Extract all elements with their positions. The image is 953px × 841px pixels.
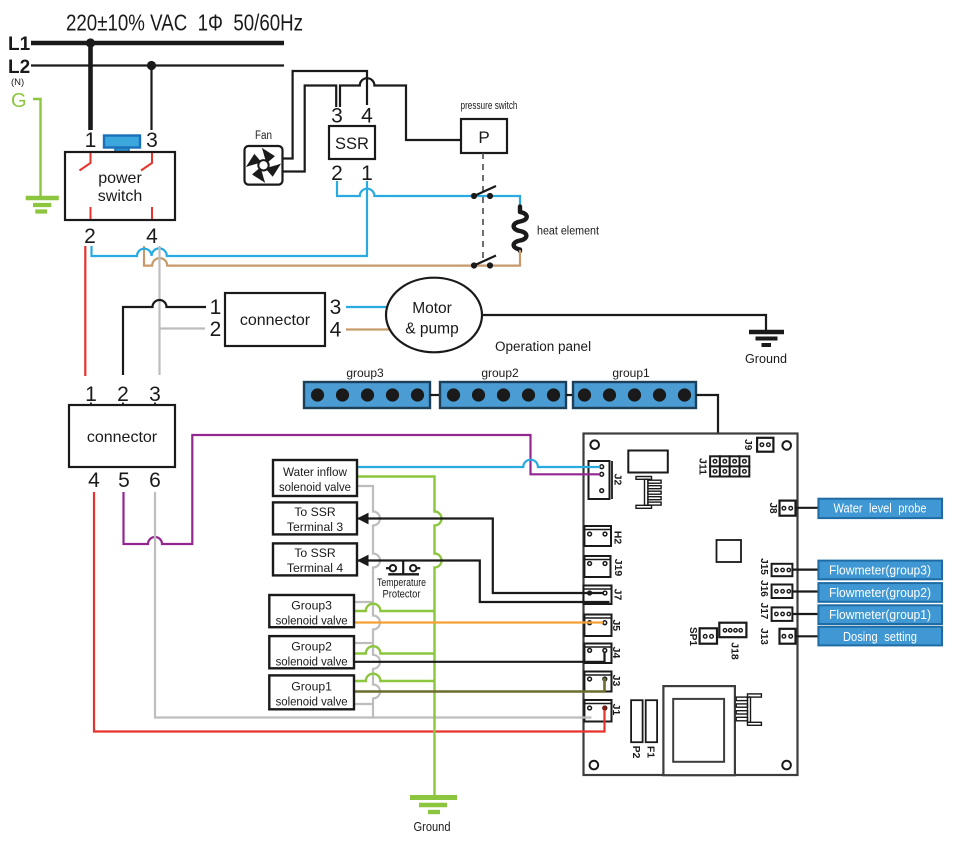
wire power switch pin 2 red down [84, 246, 86, 376]
group3 solenoid valve box [269, 595, 354, 628]
svg-text:To SSR: To SSR [294, 505, 336, 519]
connector upper box [225, 293, 325, 346]
connector J15 [758, 558, 792, 576]
fan label [255, 130, 272, 142]
wire L1 [31, 41, 284, 46]
connector J1 [584, 700, 622, 722]
svg-text:Temperature: Temperature [377, 577, 426, 589]
relay box on PCB [628, 451, 668, 473]
svg-text:Terminal 3: Terminal 3 [287, 520, 343, 534]
title 220 VAC [66, 10, 303, 36]
svg-text:220±10% VAC 1Φ 50/60Hz: 220±10% VAC 1Φ 50/60Hz [66, 10, 303, 36]
wire water inflow valve to J2 cyan [357, 460, 600, 467]
wire green ground bus [357, 477, 442, 796]
wire group1 olive to J3 [354, 678, 606, 692]
connector J5 [584, 615, 622, 637]
pin labels connector K lower [88, 469, 161, 492]
wire to SSR terminal 4 black [357, 555, 610, 602]
group1 solenoid valve box [269, 675, 354, 709]
svg-text:Group3: Group3 [291, 599, 332, 613]
PCB board [584, 434, 798, 776]
svg-text:4: 4 [361, 105, 373, 128]
pin 4 label power switch [146, 225, 158, 248]
stub J15 to flowmeter group3 [792, 568, 818, 570]
wire group1 strip to J11 [696, 395, 718, 456]
wire power switch pin 2 to SSR pin 1 cyan [92, 181, 368, 256]
wire strip link 1 [430, 394, 440, 396]
svg-text:Group2: Group2 [291, 640, 332, 654]
svg-text:SSR: SSR [335, 135, 369, 153]
heatsink comb 1 [636, 477, 661, 509]
wire heat element to power switch pin 4 tan [144, 246, 520, 266]
svg-text:Terminal 4: Terminal 4 [287, 561, 343, 575]
svg-text:Dosing setting: Dosing setting [843, 629, 917, 644]
stub J13 to dosing setting [796, 635, 819, 637]
svg-text:Water inflow: Water inflow [283, 465, 347, 479]
fan M1 [245, 146, 283, 185]
svg-text:J3: J3 [610, 675, 622, 687]
wire connector pin 6 gray to J1 [155, 492, 592, 718]
connector J7 [584, 586, 624, 605]
connector J9 [742, 438, 773, 452]
svg-text:2: 2 [210, 318, 222, 341]
switch actuator blue knob [104, 136, 140, 154]
connector J2 [589, 461, 624, 499]
pin 3 label SSR [331, 105, 343, 128]
svg-text:P: P [478, 128, 489, 147]
connector J18 [719, 623, 746, 660]
dosing setting label box [818, 627, 942, 646]
flowmeter group3 label box [818, 561, 942, 580]
svg-text:solenoid valve: solenoid valve [276, 655, 348, 669]
svg-text:Flowmeter(group2): Flowmeter(group2) [829, 585, 931, 600]
svg-text:Group1: Group1 [291, 680, 332, 694]
connector J13 [758, 628, 796, 645]
connector H2 [584, 526, 623, 546]
water level probe label box [818, 499, 942, 518]
heat element R1 [514, 207, 527, 252]
svg-text:Ground: Ground [745, 352, 787, 366]
op SSR U1 box [329, 126, 375, 159]
svg-text:4: 4 [330, 319, 342, 342]
svg-text:J13: J13 [758, 628, 769, 645]
svg-text:& pump: & pump [405, 321, 458, 338]
svg-text:Protector: Protector [383, 589, 421, 601]
svg-text:Motor: Motor [412, 300, 452, 317]
svg-text:group1: group1 [612, 366, 650, 380]
svg-text:F1: F1 [644, 746, 656, 758]
power switch SW1 box [65, 152, 175, 220]
svg-text:group3: group3 [346, 366, 384, 380]
svg-text:5: 5 [118, 469, 130, 492]
wire group2 black to J4 [354, 652, 605, 662]
water inflow solenoid valve box [273, 460, 357, 496]
ground earth green left [26, 198, 59, 212]
wire group1 green [354, 674, 435, 681]
svg-text:J15: J15 [758, 558, 769, 575]
svg-text:2: 2 [84, 225, 96, 248]
wire L2 [31, 64, 284, 66]
pressure switch label [461, 100, 518, 112]
svg-text:J18: J18 [729, 642, 741, 660]
svg-text:4: 4 [146, 225, 158, 248]
to SSR terminal 3 box [273, 502, 357, 534]
svg-text:J2: J2 [612, 474, 624, 486]
PCB mounting holes [590, 440, 791, 769]
svg-text:J16: J16 [758, 580, 769, 597]
wire motor to ground right [482, 315, 766, 330]
svg-text:Flowmeter(group3): Flowmeter(group3) [829, 563, 931, 578]
svg-text:3: 3 [146, 129, 158, 152]
wire strip link 2 [566, 394, 573, 396]
pin 2 label SSR [331, 162, 343, 185]
svg-text:J9: J9 [742, 439, 753, 451]
svg-text:J11: J11 [697, 458, 709, 475]
wire group2 green [354, 646, 435, 653]
stub J8 to water level probe [796, 507, 819, 509]
pin 2 label power switch [84, 225, 96, 248]
operation panel label [495, 339, 591, 354]
to SSR terminal 4 box [273, 543, 357, 575]
svg-text:Operation panel: Operation panel [495, 339, 591, 354]
dashed linkage pressure switch [482, 153, 484, 258]
connector J11 [697, 456, 750, 476]
svg-text:P2: P2 [630, 746, 642, 759]
node L1 label [8, 34, 31, 55]
wire connector pin 3 to motor cyan [346, 306, 389, 308]
wire gray stub group3 [354, 601, 373, 603]
flowmeter group1 label box [818, 605, 942, 624]
wire connector pin 4 red to J1 [94, 492, 607, 732]
svg-text:J8: J8 [767, 502, 778, 514]
pin 3 label power switch [146, 129, 158, 152]
wire G green [33, 99, 41, 196]
pin 1 label power switch [85, 129, 97, 152]
svg-text:Ground: Ground [414, 820, 451, 834]
svg-text:To SSR: To SSR [294, 546, 336, 560]
wire connector pin 5 purple to J2 [124, 435, 601, 544]
connector J16 [758, 580, 792, 598]
wire gray stub group1 [354, 703, 373, 705]
group2 solenoid valve box [269, 636, 354, 668]
pin 1 label SSR [361, 162, 373, 185]
motor and pump M2 [386, 278, 482, 353]
svg-text:G: G [11, 90, 27, 112]
contact lower pressure switch [471, 256, 496, 269]
svg-text:3: 3 [331, 105, 343, 128]
svg-text:L1: L1 [8, 34, 31, 55]
ground earth green bottom [410, 798, 457, 835]
ground earth right [745, 332, 787, 366]
fuse P2 [630, 700, 643, 758]
svg-text:SP1: SP1 [687, 627, 698, 646]
svg-text:H2: H2 [612, 531, 624, 545]
wire fan bottom to SSR pin 3 [283, 86, 337, 172]
connector J19 [584, 556, 624, 577]
pin labels connector K upper [85, 383, 161, 406]
svg-text:solenoid valve: solenoid valve [279, 480, 351, 494]
svg-text:power: power [98, 170, 142, 187]
svg-text:J7: J7 [612, 589, 624, 601]
svg-text:group2: group2 [481, 366, 519, 380]
wire L1 to power switch pin 1 [88, 43, 93, 130]
stub J17 to flowmeter group1 [792, 613, 818, 615]
contact marks red inside switch [80, 153, 153, 219]
svg-text:solenoid valve: solenoid valve [276, 695, 348, 709]
svg-text:pressure switch: pressure switch [461, 100, 518, 112]
svg-text:Water level probe: Water level probe [834, 501, 927, 516]
svg-text:J5: J5 [610, 619, 622, 631]
wire power switch pin 4 gray down [158, 246, 160, 375]
group3 terminal strip [304, 366, 430, 408]
svg-text:3: 3 [330, 296, 342, 319]
group2 terminal strip [440, 366, 566, 408]
contact upper pressure switch [471, 186, 496, 199]
pin 4 label SSR [361, 105, 373, 128]
group1 terminal strip [573, 366, 696, 408]
heatsink comb 2 [736, 694, 761, 725]
connector SP1 [687, 627, 717, 646]
wire SSR pin 3 to pressure switch [340, 78, 461, 140]
fuse F1 [644, 700, 657, 758]
svg-text:connector: connector [240, 312, 311, 329]
wire SSR pin 2 to heat element cyan [337, 181, 520, 208]
stub J16 to flowmeter group2 [792, 590, 818, 592]
junction on L1 [86, 38, 95, 47]
svg-text:J17: J17 [758, 603, 769, 620]
junction on L2 [147, 61, 156, 70]
connector J17 [758, 603, 792, 621]
svg-text:6: 6 [149, 469, 161, 492]
svg-text:switch: switch [98, 188, 142, 205]
heat element label [537, 226, 600, 238]
svg-text:connector: connector [87, 429, 158, 446]
svg-text:Fan: Fan [255, 130, 272, 142]
node L2 label [8, 57, 30, 88]
temperature protector TP1 [377, 561, 426, 601]
connector lower box [69, 405, 175, 467]
flowmeter group2 label box [818, 583, 942, 602]
svg-text:1: 1 [85, 129, 97, 152]
svg-text:(N): (N) [11, 77, 24, 88]
svg-text:Flowmeter(group1): Flowmeter(group1) [829, 607, 931, 622]
svg-text:L2: L2 [8, 57, 30, 78]
connector J3 [584, 672, 622, 692]
wire gray branch to connector pin 2 [160, 327, 206, 329]
wire to SSR terminal 3 black [357, 513, 604, 593]
wire group3 orange to J5 [354, 621, 603, 623]
svg-text:4: 4 [88, 469, 100, 492]
connector J4 [584, 644, 622, 664]
pin ticks connector K [91, 403, 155, 406]
svg-text:J19: J19 [612, 559, 624, 577]
connector J8 [767, 501, 796, 516]
svg-text:J1: J1 [610, 704, 622, 716]
pressure switch P box [461, 119, 507, 153]
wire connector pin 4 to motor tan [346, 328, 391, 330]
wire group3 green [354, 604, 435, 611]
svg-text:solenoid valve: solenoid valve [276, 614, 348, 628]
wire gray bus valves [357, 486, 380, 718]
wire gray stub group2 [354, 642, 373, 644]
node G label [11, 90, 27, 112]
wire fan top to SSR pin 4 [283, 71, 368, 159]
wire connector pin 1 black [123, 300, 206, 375]
pin labels connector J upper [210, 296, 342, 342]
svg-text:1: 1 [210, 296, 222, 319]
IC square on PCB [717, 540, 742, 562]
svg-text:J4: J4 [610, 647, 622, 659]
wire L2 to power switch pin 3 [150, 66, 152, 131]
svg-text:heat element: heat element [537, 226, 600, 238]
transformer T1 [663, 686, 735, 775]
